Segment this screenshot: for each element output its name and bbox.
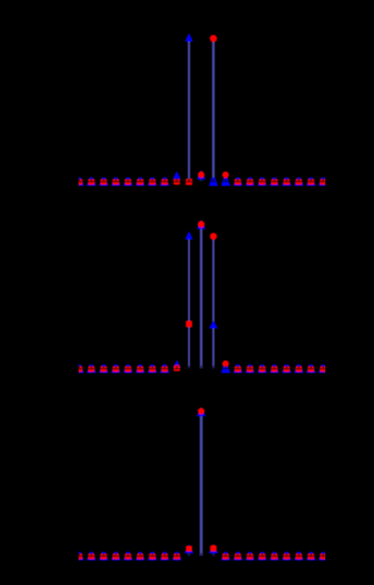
sp1 blue peak marker n=-1 <box>185 33 193 41</box>
sp3 blue marker zero i17 <box>282 552 291 561</box>
sp3 stem stub n=+1 <box>212 551 214 556</box>
sp3 blue small marker n=+1 <box>209 545 218 554</box>
sp1 red square zero i14 <box>247 179 253 184</box>
sp1 blue marker zero i13 <box>233 177 242 186</box>
sp3 blue marker zero i13 <box>233 552 242 561</box>
sp1 blue marker zero i17 <box>282 177 291 186</box>
sp3 red square zero i5 <box>137 554 143 559</box>
sp2 blue marker zero i19 <box>306 365 315 374</box>
sp2 red square zero n=-2 <box>174 365 180 371</box>
sp3 red circle zero i20 <box>321 554 326 559</box>
sp3 red circle zero i18 <box>296 554 301 559</box>
sp1 blue marker zero i0 <box>75 177 84 186</box>
sp3 red circle zero i2 <box>101 554 106 559</box>
sp2 blue marker zero i16 <box>270 365 279 374</box>
sp3 red circle zero i15 <box>260 554 265 559</box>
sp3 red square zero i0 <box>76 554 82 559</box>
sp1 red circle zero i3 <box>113 179 118 184</box>
sp3 red square small n=+1 <box>210 546 216 551</box>
sp2 blue marker zero i7 <box>160 365 169 374</box>
sp1 red circle zero i4 <box>125 179 130 184</box>
sp3 blue marker zero i5 <box>136 552 145 561</box>
sp3 red square zero i3 <box>113 554 119 559</box>
sp1 red square zero i3 <box>113 179 119 184</box>
sp2 red circle zero i14 <box>247 367 252 372</box>
sp3 red square zero i12 <box>222 554 228 559</box>
sp2 red circle zero i1 <box>89 367 94 372</box>
sp2 red circle zero i15 <box>260 367 265 372</box>
sp1 blue small marker n=0 <box>197 170 206 179</box>
sp1 blue marker zero i16 <box>270 177 279 186</box>
sp1 blue marker zero i19 <box>306 177 315 186</box>
sp2 blue marker zero i18 <box>294 365 303 374</box>
sp2 red circle zero i19 <box>308 367 313 372</box>
sp2 red square zero i13 <box>235 366 241 371</box>
sp2 red circle zero i18 <box>296 367 301 372</box>
sp2 red square zero i6 <box>149 366 155 371</box>
sp3 red circle zero i16 <box>272 554 277 559</box>
sp1 red square zero i5 <box>137 179 143 184</box>
sp2 red square zero i18 <box>296 366 302 371</box>
sp1 red square zero i8 <box>174 179 180 184</box>
sp3 blue marker zero i20 <box>319 552 328 561</box>
sp1 red square zero i20 <box>320 179 326 184</box>
sp2 blue peak marker n=0 <box>197 220 206 229</box>
sp3 blue marker zero i3 <box>111 552 120 561</box>
sp3 blue marker zero i12 <box>221 552 230 561</box>
sp2 blue marker zero i14 <box>245 365 254 374</box>
sp1 blue marker zero i14 <box>245 177 254 186</box>
sp3 red circle zero i8 <box>174 554 179 559</box>
sp3 red circle zero i13 <box>235 554 240 559</box>
sp3 red circle zero i6 <box>150 554 155 559</box>
sp3 blue marker zero i2 <box>99 552 108 561</box>
sp3 blue small marker n=-1 <box>184 544 193 553</box>
sp2 red circle zero i17 <box>284 367 289 372</box>
sp1 red square zero i1 <box>88 179 94 184</box>
sp3 blue peak marker n=0 <box>197 407 206 416</box>
sp1 stem stub at n=0 <box>200 177 202 182</box>
sp1 stem x1 at n=-1 <box>188 41 190 181</box>
sp2 red circle zero i20 <box>321 367 326 372</box>
sp3 blue marker zero i14 <box>245 552 254 561</box>
sp2 red peak marker n=+1 <box>210 233 217 240</box>
sp1 red square zero i4 <box>125 179 131 184</box>
sp3 blue marker zero i15 <box>258 552 267 561</box>
sp3 blue marker zero i16 <box>270 552 279 561</box>
sp3 blue marker zero i18 <box>294 552 303 561</box>
sp3 red circle small n=+1 <box>210 545 217 552</box>
sp3 red circle zero i3 <box>113 554 118 559</box>
sp2 stem n=0 <box>200 228 203 368</box>
sp1 blue marker zero i1 <box>87 177 96 186</box>
sp3 red square zero i7 <box>161 554 167 559</box>
sp3 stem stub n=-1 <box>188 551 190 556</box>
sp2 red square zero i7 <box>161 366 167 371</box>
sp2 red circle zero i7 <box>162 367 167 372</box>
sp3 x-axis ticks <box>79 553 80 556</box>
sp2 red square zero i0 <box>76 366 82 371</box>
sp2 red circle zero i13 <box>235 367 240 372</box>
sp2 blue zero marker n=+2 <box>221 365 230 374</box>
sp1 red circle zero i1 <box>89 179 94 184</box>
sp1 red circle zero i14 <box>247 179 252 184</box>
sp2 red small marker n=+2 <box>222 360 229 367</box>
sp1 red small marker n=+2 <box>222 172 229 179</box>
sp2 blue marker zero i3 <box>111 365 120 374</box>
sp3 red circle zero i12 <box>223 554 228 559</box>
sp3 blue marker zero i4 <box>123 552 132 561</box>
sp1 blue marker zero i6 <box>148 177 157 186</box>
sp1 red circle zero i5 <box>138 179 143 184</box>
sp2 red square zero i15 <box>259 366 265 371</box>
sp3 red square zero i13 <box>235 554 241 559</box>
sp3 red square zero i17 <box>283 554 289 559</box>
sp1 red square zero i16 <box>271 179 277 184</box>
sp1 red square zero i19 <box>308 179 314 184</box>
sp3 red circle zero i1 <box>89 554 94 559</box>
sp1 red circle zero i20 <box>321 179 326 184</box>
subplot 1 axes <box>75 33 328 186</box>
sp1 red square zero i13 <box>235 179 241 184</box>
sp2 blue marker zero i20 <box>319 365 328 374</box>
sp1 red square zero i2 <box>100 179 106 184</box>
sp3 red square zero i14 <box>247 554 253 559</box>
sp1 blue marker zero i18 <box>294 177 303 186</box>
sp1 red square zero n=-1 <box>186 179 193 185</box>
sp3 stem n=0 <box>200 415 203 556</box>
sp3 red square zero i15 <box>259 554 265 559</box>
sp3 red square zero i6 <box>149 554 155 559</box>
sp3 red square zero i1 <box>88 554 94 559</box>
sp3 red circle zero i17 <box>284 554 289 559</box>
sp1 x-axis ticks <box>79 179 80 182</box>
sp1 red circle zero i13 <box>235 179 240 184</box>
sp1 blue marker zero i2 <box>99 177 108 186</box>
sp1 red circle zero i16 <box>272 179 277 184</box>
sp3 red circle zero i5 <box>138 554 143 559</box>
sp1 blue small marker n=-2 <box>173 171 181 179</box>
sp1 stem x2 at n=+1 <box>212 42 215 181</box>
sp2 red circle zero i2 <box>101 367 106 372</box>
sp2 x-axis ticks <box>79 366 80 369</box>
sp3 red circle zero i19 <box>308 554 313 559</box>
sp3 blue marker zero i8 <box>172 552 181 561</box>
sp1 blue marker zero i20 <box>319 177 328 186</box>
sp2 red circle zero i5 <box>138 367 143 372</box>
sp1 blue marker zero i3 <box>111 177 120 186</box>
sp1 red circle zero i8 <box>174 179 179 184</box>
sp1 red square zero i15 <box>259 179 265 184</box>
sp3 blue marker zero i6 <box>148 552 157 561</box>
sp2 blue marker zero i15 <box>258 365 267 374</box>
sp2 blue small marker n=-2 <box>173 360 181 368</box>
sp3 red square zero i8 <box>174 554 180 559</box>
sp1 blue marker zero i7 <box>160 177 169 186</box>
sp2 red square zero i17 <box>283 366 289 371</box>
sp1 red circle zero i0 <box>77 179 82 184</box>
sp3 red square zero i4 <box>125 554 131 559</box>
sp3 red square zero i16 <box>271 554 277 559</box>
sp2 blue marker zero i4 <box>123 365 132 374</box>
sp1 red circle zero i7 <box>162 179 167 184</box>
sp2 blue marker zero i2 <box>99 365 108 374</box>
sp1 red peak marker n=+1 <box>210 35 217 42</box>
sp2 blue marker zero i6 <box>148 365 157 374</box>
sp1 blue marker zero i4 <box>123 177 132 186</box>
sp2 red square zero i19 <box>308 366 314 371</box>
sp3 red circle small n=-1 <box>186 546 192 552</box>
sp2 blue marker zero i1 <box>87 365 96 374</box>
sp2 blue mid marker n=+1 <box>209 320 218 328</box>
sp3 red circle zero i14 <box>247 554 252 559</box>
sp1 red circle zero i6 <box>150 179 155 184</box>
sp2 red circle zero i0 <box>77 367 82 372</box>
sp1 blue zero marker n=+1 <box>209 177 218 186</box>
sp2 blue marker zero i0 <box>75 365 84 374</box>
sp3 red square zero i19 <box>308 554 314 559</box>
sp2 x-axis spine <box>79 368 326 370</box>
sp1 red square zero i7 <box>161 179 167 184</box>
sp2 red square zero i3 <box>113 366 119 371</box>
sp3 red square zero i18 <box>296 554 302 559</box>
sp2 red square zero i4 <box>125 366 131 371</box>
sp2 red circle zero n=-2 <box>174 365 180 371</box>
sp1 red circle zero i15 <box>260 179 265 184</box>
sp3 red circle zero i0 <box>77 554 82 559</box>
subplot 2 axes <box>75 220 328 373</box>
sp3 blue marker zero i1 <box>87 552 96 561</box>
sp2 red square zero i16 <box>271 366 277 371</box>
sp2 red circle zero i16 <box>272 367 277 372</box>
sp1 red small marker n=0 <box>198 171 205 178</box>
sp2 red peak marker n=0 <box>198 221 205 228</box>
sp3 red square small n=-1 <box>186 546 192 551</box>
sp3 blue marker zero i0 <box>75 552 84 561</box>
sp2 stem n=+1 <box>212 240 214 368</box>
sp2 red square zero i14 <box>247 366 253 371</box>
sp3 red peak marker n=0 <box>198 408 205 415</box>
sp3 red square zero i2 <box>100 554 106 559</box>
sp1 red square zero i0 <box>76 179 82 184</box>
sp2 red circle zero i3 <box>113 367 118 372</box>
sp1 x-axis spine <box>79 181 326 183</box>
sp3 red square zero i20 <box>320 554 326 559</box>
sp2 red square zero i1 <box>88 366 94 371</box>
sp2 stem n=-1 <box>188 239 190 368</box>
sp2 red circle zero i6 <box>150 367 155 372</box>
sp3 blue marker zero i7 <box>160 552 169 561</box>
sp1 red circle zero i2 <box>101 179 106 184</box>
sp2 red square mid n=-1 <box>186 321 192 327</box>
sp2 blue marker zero i17 <box>282 365 291 374</box>
sp1 red square zero i6 <box>149 179 155 184</box>
sp1 red circle zero i19 <box>308 179 313 184</box>
sp1 blue marker zero i15 <box>258 177 267 186</box>
sp2 blue marker zero i5 <box>136 365 145 374</box>
sp3 blue marker zero i19 <box>306 552 315 561</box>
sp2 red square zero i20 <box>320 366 326 371</box>
subplot 3 axes <box>75 407 328 560</box>
sp3 red circle zero i4 <box>125 554 130 559</box>
sp1 red circle zero i17 <box>284 179 289 184</box>
sp3 red circle zero i7 <box>162 554 167 559</box>
sp1 blue zero marker n=+2 <box>221 177 230 186</box>
sp1 blue marker zero i5 <box>136 177 145 186</box>
sp1 red circle zero i18 <box>296 179 301 184</box>
sp2 blue peak marker n=-1 <box>185 231 193 239</box>
sp2 blue marker zero i13 <box>233 365 242 374</box>
sp2 red square zero i2 <box>100 366 106 371</box>
sp2 red circle zero i4 <box>125 367 130 372</box>
sp1 red square zero i17 <box>283 179 289 184</box>
sp1 red square zero i18 <box>296 179 302 184</box>
sp2 red square zero i5 <box>137 366 143 371</box>
sp3 x-axis spine <box>79 555 326 557</box>
